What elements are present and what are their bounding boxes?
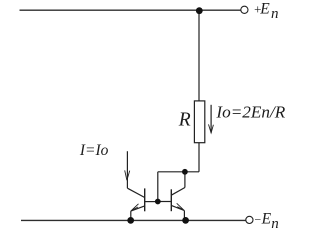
svg-text:−: − xyxy=(254,212,262,226)
svg-text:Io=2En/R: Io=2En/R xyxy=(215,102,285,121)
svg-text:R: R xyxy=(178,110,191,131)
svg-text:I=Io: I=Io xyxy=(79,142,109,159)
svg-text:n: n xyxy=(271,216,279,232)
svg-text:E: E xyxy=(261,210,272,227)
svg-text:E: E xyxy=(259,0,270,17)
svg-text:n: n xyxy=(271,6,279,22)
